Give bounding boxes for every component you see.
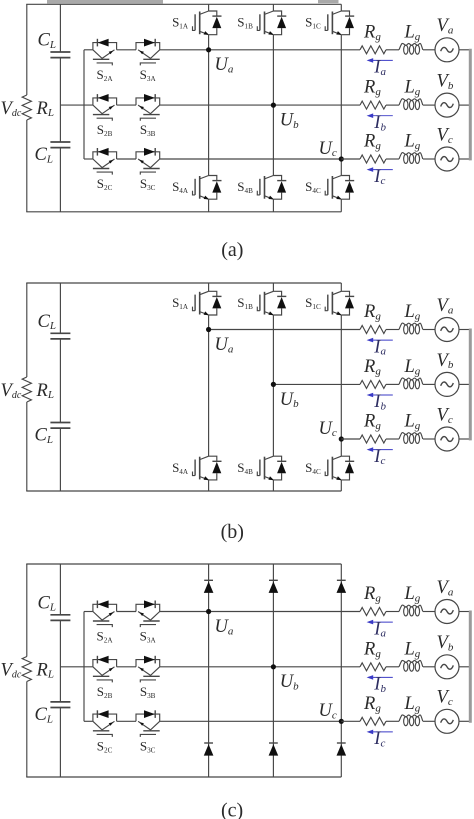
diode D1B (c): [269, 580, 279, 593]
svg-text:Vb: Vb: [437, 633, 454, 653]
wire capacitor midpoint to matrix (c): [60, 666, 93, 668]
wire Rg to Lg phase a (b): [386, 329, 399, 331]
wire collector S1C (a): [340, 4, 342, 11]
DC bus top wire (b): [26, 282, 341, 284]
svg-text:S1A: S1A: [172, 295, 189, 311]
inductor Lg phase a (c): [399, 605, 423, 616]
inductor Lg phase a (b): [399, 323, 423, 334]
wire Rg to Lg phase c (c): [386, 720, 399, 722]
svg-text:Rg: Rg: [363, 302, 381, 322]
capacitor rail middle wire (c): [59, 620, 61, 702]
bidirectional IGBT S3B (a): [136, 94, 160, 121]
wire Rg to Lg phase b (a): [386, 104, 399, 106]
grid neutral bus (a): [469, 49, 472, 161]
diode D4C (c): [337, 743, 347, 756]
svg-text:Uc: Uc: [319, 701, 337, 721]
bidirectional IGBT S2A (c): [93, 600, 117, 627]
node Ub junction (b): [271, 382, 276, 387]
IGBT S1B with freewheel diode (b): [257, 291, 286, 315]
wire Rg to Lg phase c (a): [386, 158, 399, 160]
svg-text:Vdc: Vdc: [1, 381, 22, 401]
bidirectional IGBT S2C (a): [93, 148, 117, 175]
svg-text:Uc: Uc: [319, 139, 337, 159]
svg-text:Uc: Uc: [319, 419, 337, 439]
svg-text:Rg: Rg: [363, 584, 381, 604]
wire emitter S4A (a): [208, 199, 210, 212]
svg-text:Vc: Vc: [437, 125, 453, 145]
bidirectional IGBT S3A (c): [136, 600, 160, 627]
grid neutral bus (b): [469, 329, 472, 441]
resistor Rg phase a (a): [360, 46, 386, 54]
current arrow Ib (c): [367, 675, 393, 680]
inductor Lg phase c (c): [399, 715, 423, 726]
IGBT S1A with freewheel diode (a): [193, 11, 222, 35]
AC source Va (a): [435, 38, 459, 62]
wire source Vc to grid bus (a): [459, 158, 469, 160]
capacitor rail upper wire (a): [59, 4, 61, 52]
wire S2A to S3A (a): [117, 49, 136, 51]
svg-text:S2C: S2C: [97, 738, 113, 754]
resistor Rg phase c (b): [360, 435, 386, 443]
svg-text:(c): (c): [221, 800, 243, 819]
svg-text:(a): (a): [221, 239, 243, 261]
svg-text:Ua: Ua: [215, 617, 234, 637]
svg-text:CL: CL: [35, 145, 53, 165]
IGBT S4C with freewheel diode (b): [325, 456, 354, 480]
svg-text:S2B: S2B: [97, 122, 113, 138]
svg-text:Lg: Lg: [404, 694, 421, 714]
bidirectional IGBT S3B (c): [136, 656, 160, 683]
svg-text:CL: CL: [38, 312, 56, 332]
rectifier leg wire A (c): [208, 564, 210, 777]
svg-text:S3B: S3B: [140, 122, 156, 138]
svg-text:RL: RL: [36, 381, 54, 401]
node Uc junction (c): [339, 719, 344, 724]
AC source Vb (b): [435, 372, 459, 396]
svg-text:CL: CL: [38, 593, 56, 613]
svg-text:S2A: S2A: [97, 67, 114, 83]
svg-text:CL: CL: [38, 31, 56, 51]
svg-text:Lg: Lg: [404, 78, 421, 98]
capacitor rail upper wire (b): [59, 283, 61, 333]
wire phase a to resistor Rg (a): [341, 49, 360, 51]
svg-text:CL: CL: [35, 426, 53, 446]
capacitor CL upper (a): [50, 52, 70, 58]
wire phase b to resistor Rg (c): [341, 666, 360, 668]
svg-text:S2C: S2C: [97, 176, 113, 192]
current arrow Ib (b): [367, 393, 393, 398]
wire S2B to S3B (a): [117, 104, 136, 106]
left rail lower wire (a): [26, 120, 28, 212]
phase leg wire C (a): [340, 35, 342, 176]
diode D1C (c): [337, 580, 347, 593]
wire source Va to grid bus (a): [459, 49, 469, 51]
svg-text:S1B: S1B: [237, 295, 253, 311]
svg-text:Rg: Rg: [363, 639, 381, 659]
IGBT S4A with freewheel diode (a): [193, 176, 222, 200]
AC source Vb (a): [435, 93, 459, 117]
wire source Vb to grid bus (a): [459, 104, 469, 106]
AC source Vc (c): [435, 709, 459, 733]
wire collector S1A (a): [208, 4, 210, 11]
wire S3A to output node (c): [160, 611, 342, 613]
svg-text:Lg: Lg: [404, 302, 421, 322]
wire S3A to output node (a): [160, 49, 342, 51]
svg-text:(b): (b): [221, 521, 244, 543]
wire Lg to source phase b (b): [423, 383, 435, 385]
phase leg wire B (b): [272, 315, 274, 456]
svg-text:S3A: S3A: [140, 67, 157, 83]
wire Lg to source phase c (b): [423, 438, 435, 440]
svg-text:Lg: Lg: [404, 132, 421, 152]
svg-text:Ub: Ub: [280, 672, 299, 692]
resistor Rg phase a (c): [360, 608, 386, 616]
wire S2A to S3A (c): [117, 611, 136, 613]
svg-text:S4A: S4A: [172, 179, 189, 195]
wire Rg to Lg phase c (b): [386, 438, 399, 440]
node Uc junction (b): [339, 436, 344, 441]
wire S3C to output node (a): [160, 158, 342, 160]
wire emitter S4B (b): [272, 480, 274, 491]
capacitor rail lower wire (c): [59, 708, 61, 778]
wire phase a to resistor Rg (b): [341, 329, 360, 331]
svg-text:Lg: Lg: [404, 22, 421, 42]
svg-text:Rg: Rg: [363, 694, 381, 714]
svg-text:S1C: S1C: [305, 295, 321, 311]
svg-text:Vb: Vb: [437, 351, 454, 371]
wire emitter S4B (a): [272, 199, 274, 212]
wire source Vb to grid bus (c): [459, 666, 469, 668]
current arrow Ia (b): [367, 338, 393, 343]
wire source Va to grid bus (c): [459, 611, 469, 613]
svg-text:Ub: Ub: [280, 111, 299, 131]
wire matrix bus to S2A (c): [84, 611, 93, 613]
svg-text:Rg: Rg: [363, 412, 381, 432]
bidirectional IGBT S3C (c): [136, 710, 160, 737]
bidirectional IGBT S2C (c): [93, 710, 117, 737]
svg-text:S3B: S3B: [140, 684, 156, 700]
wire collector S1B (b): [272, 283, 274, 291]
svg-text:Ua: Ua: [215, 55, 234, 75]
wire emitter S4C (a): [340, 199, 342, 212]
wire capacitor midpoint to matrix (a): [60, 104, 93, 106]
svg-text:Va: Va: [437, 578, 454, 598]
wire S3B to output node (c): [160, 666, 342, 668]
bidirectional IGBT S2B (a): [93, 94, 117, 121]
rectifier leg wire C (c): [340, 564, 342, 777]
DC bus top wire (c): [26, 563, 341, 565]
current arrow Ic (b): [367, 447, 393, 452]
wire phase c to resistor Rg (c): [341, 720, 360, 722]
svg-text:Rg: Rg: [363, 132, 381, 152]
svg-text:Lg: Lg: [404, 639, 421, 659]
svg-text:S2B: S2B: [97, 684, 113, 700]
svg-text:Rg: Rg: [363, 22, 381, 42]
resistor RL (c): [22, 657, 31, 682]
current arrow Ic (a): [367, 167, 393, 172]
svg-text:S3C: S3C: [140, 738, 156, 754]
IGBT S4B with freewheel diode (b): [257, 456, 286, 480]
DC bus bottom wire (b): [26, 490, 341, 492]
node Uc junction (a): [339, 156, 344, 161]
wire matrix bus to S2C (c): [84, 720, 93, 722]
left rail lower wire (b): [26, 402, 28, 491]
wire Rg to Lg phase b (b): [386, 383, 399, 385]
resistor Rg phase a (b): [360, 326, 386, 334]
inductor Lg phase b (c): [399, 660, 423, 671]
capacitor CL upper (c): [50, 615, 70, 621]
svg-text:S4A: S4A: [172, 460, 189, 476]
resistor Rg phase b (b): [360, 380, 386, 388]
wire collector S1C (b): [340, 283, 342, 291]
capacitor CL upper (b): [50, 333, 70, 339]
svg-text:Vdc: Vdc: [1, 660, 22, 680]
resistor Rg phase b (a): [360, 101, 386, 109]
wire phase a to resistor Rg (c): [341, 611, 360, 613]
svg-text:Ua: Ua: [215, 335, 234, 355]
wire matrix bus to S2A (a): [84, 49, 93, 51]
current arrow Ia (a): [367, 58, 393, 63]
left rail upper wire (a): [26, 4, 28, 95]
resistor RL (a): [22, 95, 31, 120]
node Ua junction (c): [206, 609, 211, 614]
capacitor rail middle wire (a): [59, 58, 61, 142]
AC source Vc (b): [435, 427, 459, 451]
wire source Vc to grid bus (c): [459, 720, 469, 722]
wire Lg to source phase a (c): [423, 611, 435, 613]
left rail upper wire (c): [26, 564, 28, 657]
bidirectional IGBT S2A (a): [93, 39, 117, 66]
diode D4B (c): [269, 743, 279, 756]
rectifier leg wire B (c): [272, 564, 274, 777]
diode D1A (c): [204, 580, 214, 593]
wire Lg to source phase a (a): [423, 49, 435, 51]
wire S3B to output node (a): [160, 104, 342, 106]
svg-text:RL: RL: [36, 99, 54, 119]
wire Lg to source phase c (c): [423, 720, 435, 722]
wire phase b to resistor Rg (a): [341, 104, 360, 106]
inductor Lg phase b (a): [399, 99, 423, 110]
phase leg wire A (b): [208, 315, 210, 456]
phase leg wire C (b): [340, 315, 342, 456]
capacitor rail middle wire (b): [59, 339, 61, 423]
IGBT S1B with freewheel diode (a): [257, 11, 286, 35]
wire phase a node to grid branch (b): [209, 329, 342, 331]
current arrow Ib (a): [367, 113, 393, 118]
svg-text:Vdc: Vdc: [1, 99, 22, 119]
capacitor rail lower wire (a): [59, 148, 61, 212]
IGBT S1A with freewheel diode (b): [193, 291, 222, 315]
DC bus bottom wire (c): [26, 776, 341, 778]
svg-text:S4C: S4C: [305, 460, 321, 476]
svg-text:S4C: S4C: [305, 179, 321, 195]
wire S2C to S3C (a): [117, 158, 136, 160]
resistor RL (b): [22, 377, 31, 402]
node Ub junction (a): [271, 103, 276, 108]
left rail lower wire (c): [26, 682, 28, 778]
wire phase c to resistor Rg (b): [341, 438, 360, 440]
IGBT S1C with freewheel diode (b): [325, 291, 354, 315]
svg-text:S2A: S2A: [97, 629, 114, 645]
node Ub junction (c): [271, 664, 276, 669]
grid neutral bus (c): [469, 611, 472, 723]
resistor Rg phase c (a): [360, 155, 386, 163]
wire matrix bus to S2C (a): [84, 158, 93, 160]
current arrow Ic (c): [367, 730, 393, 735]
wire Lg to source phase c (a): [423, 158, 435, 160]
AC source Va (b): [435, 318, 459, 342]
wire Lg to source phase b (c): [423, 666, 435, 668]
svg-text:RL: RL: [36, 660, 54, 680]
node Ua junction (b): [206, 327, 211, 332]
inductor Lg phase b (b): [399, 378, 423, 389]
resistor Rg phase c (c): [360, 717, 386, 725]
wire S3C to output node (c): [160, 720, 342, 722]
wire Lg to source phase b (a): [423, 104, 435, 106]
DC bus bottom wire (a): [26, 211, 341, 213]
capacitor CL lower (a): [50, 142, 70, 148]
wire emitter S4A (b): [208, 480, 210, 491]
scan artifact gray strip top left: [47, 0, 163, 4]
svg-text:Rg: Rg: [363, 357, 381, 377]
capacitor rail lower wire (b): [59, 428, 61, 491]
inductor Lg phase c (a): [399, 153, 423, 164]
svg-text:Lg: Lg: [404, 412, 421, 432]
wire Rg to Lg phase a (c): [386, 611, 399, 613]
left rail upper wire (b): [26, 283, 28, 377]
IGBT S4B with freewheel diode (a): [257, 176, 286, 200]
phase leg wire A (a): [208, 35, 210, 176]
svg-text:Va: Va: [437, 16, 454, 36]
svg-text:Ub: Ub: [280, 390, 299, 410]
capacitor CL lower (b): [50, 423, 70, 429]
svg-text:S3C: S3C: [140, 176, 156, 192]
IGBT S4C with freewheel diode (a): [325, 176, 354, 200]
matrix left bus wire (c): [83, 612, 85, 722]
wire Lg to source phase a (b): [423, 329, 435, 331]
wire S2C to S3C (c): [117, 720, 136, 722]
svg-text:Vb: Vb: [437, 72, 454, 92]
wire Rg to Lg phase b (c): [386, 666, 399, 668]
svg-text:S1A: S1A: [172, 15, 189, 31]
wire phase c to resistor Rg (a): [341, 158, 360, 160]
resistor Rg phase b (c): [360, 663, 386, 671]
wire source Vc to grid bus (b): [459, 438, 469, 440]
DC bus top wire (a): [26, 3, 341, 5]
svg-text:S1C: S1C: [305, 15, 321, 31]
node Ua junction (a): [206, 47, 211, 52]
svg-text:Rg: Rg: [363, 78, 381, 98]
capacitor rail upper wire (c): [59, 564, 61, 615]
svg-text:S3A: S3A: [140, 629, 157, 645]
IGBT S1C with freewheel diode (a): [325, 11, 354, 35]
wire S2B to S3B (c): [117, 666, 136, 668]
AC source Vb (c): [435, 655, 459, 679]
svg-text:S4B: S4B: [237, 460, 253, 476]
wire collector S1B (a): [272, 4, 274, 11]
capacitor CL lower (c): [50, 702, 70, 708]
svg-text:Vc: Vc: [437, 405, 453, 425]
wire emitter S4C (b): [340, 480, 342, 491]
IGBT S4A with freewheel diode (b): [193, 456, 222, 480]
svg-text:S1B: S1B: [237, 15, 253, 31]
wire collector S1A (b): [208, 283, 210, 291]
wire source Vb to grid bus (b): [459, 383, 469, 385]
AC source Va (c): [435, 600, 459, 624]
wire phase b to resistor Rg (b): [341, 383, 360, 385]
svg-text:Lg: Lg: [404, 584, 421, 604]
svg-text:CL: CL: [35, 705, 53, 725]
bidirectional IGBT S3C (a): [136, 148, 160, 175]
wire Rg to Lg phase a (a): [386, 49, 399, 51]
svg-text:S4B: S4B: [237, 179, 253, 195]
inductor Lg phase c (b): [399, 433, 423, 444]
bidirectional IGBT S3A (a): [136, 39, 160, 66]
phase leg wire B (a): [272, 35, 274, 176]
inductor Lg phase a (a): [399, 43, 423, 54]
scan artifact gray strip top right: [318, 0, 339, 3]
svg-text:Vc: Vc: [437, 688, 453, 708]
diode D4A (c): [204, 743, 214, 756]
wire phase b node to grid branch (b): [273, 383, 341, 385]
wire source Va to grid bus (b): [459, 329, 469, 331]
matrix left bus wire (a): [83, 50, 85, 159]
svg-text:Lg: Lg: [404, 357, 421, 377]
bidirectional IGBT S2B (c): [93, 656, 117, 683]
AC source Vc (a): [435, 147, 459, 171]
current arrow Ia (c): [367, 620, 393, 625]
svg-text:Va: Va: [437, 296, 454, 316]
